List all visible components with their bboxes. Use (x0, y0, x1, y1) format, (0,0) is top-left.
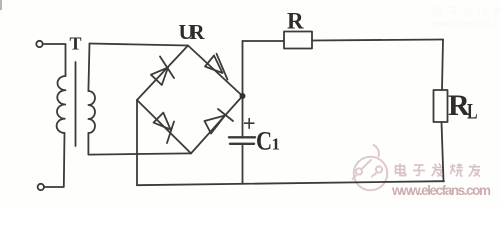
svg-text:R: R (287, 8, 304, 33)
watermark faint top-right (431, 6, 500, 28)
wire positive vertical (right corner up to top rail) (242, 41, 244, 137)
transformer core (75, 62, 77, 146)
wire primary top (43, 44, 66, 76)
bridge UR side: left-bottom wire (137, 100, 191, 153)
发 (432, 164, 443, 177)
terminal circle top-left (36, 41, 42, 47)
子 (413, 165, 425, 176)
svg-text:L: L (467, 100, 478, 124)
wire secondary bottom (AC input 2) (88, 133, 191, 155)
capacitor C1 bottom lead (242, 144, 244, 184)
diode D4 (bottom to right) (205, 116, 226, 134)
top rail right of R (312, 40, 443, 41)
edge artifact top-left (0, 0, 2, 10)
junction dot at + node (240, 93, 246, 99)
bridge UR side: left-top wire (137, 46, 188, 101)
resistor RL body (434, 90, 448, 122)
烧 (450, 164, 462, 177)
top rail left of R (243, 40, 285, 42)
svg-text:www.elecfans.com: www.elecfans.com (431, 18, 500, 28)
diode D3 (left to bottom) (154, 113, 171, 130)
svg-text:www.elecfans.com: www.elecfans.com (391, 183, 491, 198)
capacitor C1 plates (229, 136, 255, 138)
svg-text:T: T (70, 34, 82, 54)
svg-text:C: C (256, 127, 272, 156)
polarity + of C1 (244, 118, 255, 129)
友 (469, 164, 480, 177)
wire secondary top (AC input 1) (90, 44, 189, 46)
RL bottom lead (442, 122, 444, 181)
right branch down to RL (442, 40, 443, 91)
电 (396, 164, 406, 176)
bottom rail (137, 181, 444, 185)
watermark text 电子发烧友 (bottom right) (396, 164, 481, 177)
wire negative drop from left corner (136, 100, 138, 185)
watermark logo circle (bottom right) (352, 145, 387, 191)
svg-text:1: 1 (272, 135, 281, 154)
diode D2 (top to right) (205, 56, 223, 74)
svg-text:UR: UR (179, 20, 206, 44)
transformer T primary winding (57, 76, 66, 133)
resistor R body (284, 32, 312, 49)
wire primary bottom (44, 133, 64, 187)
main circuit strokes (36, 32, 447, 191)
bridge UR side: top-right wire (188, 46, 243, 97)
bridge UR side: bottom-right wire (191, 96, 243, 153)
transformer T secondary winding (88, 44, 89, 92)
diode D1 (left to top) (151, 68, 168, 86)
terminal circle bottom-left (38, 184, 44, 190)
